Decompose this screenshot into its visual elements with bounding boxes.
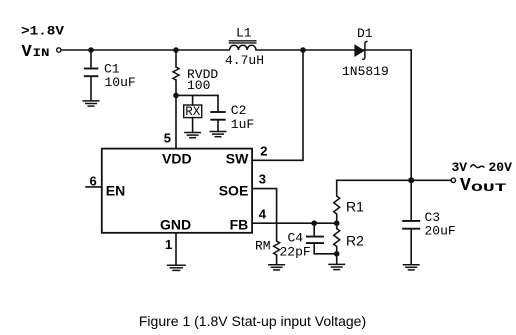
svg-text:2: 2 bbox=[260, 144, 267, 159]
svg-text:C4: C4 bbox=[288, 231, 304, 246]
svg-text:EN: EN bbox=[106, 183, 125, 199]
svg-text:L1: L1 bbox=[236, 26, 252, 41]
svg-text:6: 6 bbox=[90, 174, 97, 189]
svg-text:3: 3 bbox=[259, 172, 266, 187]
svg-text:SOE: SOE bbox=[219, 183, 249, 199]
svg-text:22pF: 22pF bbox=[280, 245, 311, 260]
svg-text:Figure 1 (1.8V Stat-up input V: Figure 1 (1.8V Stat-up input Voltage) bbox=[139, 313, 366, 329]
svg-text:C2: C2 bbox=[231, 103, 247, 118]
svg-text:100: 100 bbox=[187, 78, 210, 93]
svg-text:3V: 3V bbox=[452, 160, 468, 175]
svg-text:OUT: OUT bbox=[471, 183, 507, 195]
svg-text:4.7uH: 4.7uH bbox=[225, 53, 264, 68]
svg-text:V: V bbox=[22, 43, 33, 62]
svg-text:5: 5 bbox=[164, 131, 171, 146]
svg-text:R2: R2 bbox=[346, 233, 364, 249]
svg-text:>1.8V: >1.8V bbox=[21, 24, 64, 39]
svg-text:SW: SW bbox=[226, 151, 249, 167]
svg-text:RX: RX bbox=[185, 105, 201, 119]
svg-text:4: 4 bbox=[259, 207, 267, 222]
svg-text:1: 1 bbox=[165, 237, 172, 252]
svg-text:GND: GND bbox=[160, 217, 191, 233]
svg-text:1N5819: 1N5819 bbox=[342, 64, 389, 79]
svg-text:V: V bbox=[460, 176, 471, 196]
svg-text:1uF: 1uF bbox=[231, 117, 254, 132]
svg-text:FB: FB bbox=[230, 217, 249, 233]
svg-text:VDD: VDD bbox=[162, 151, 192, 167]
svg-text:IN: IN bbox=[33, 48, 50, 60]
svg-text:D1: D1 bbox=[357, 26, 373, 41]
svg-text:20V: 20V bbox=[489, 160, 513, 175]
svg-text:10uF: 10uF bbox=[105, 75, 136, 90]
svg-text:RM: RM bbox=[255, 239, 271, 254]
svg-text:20uF: 20uF bbox=[425, 224, 456, 239]
svg-text:R1: R1 bbox=[346, 199, 364, 215]
